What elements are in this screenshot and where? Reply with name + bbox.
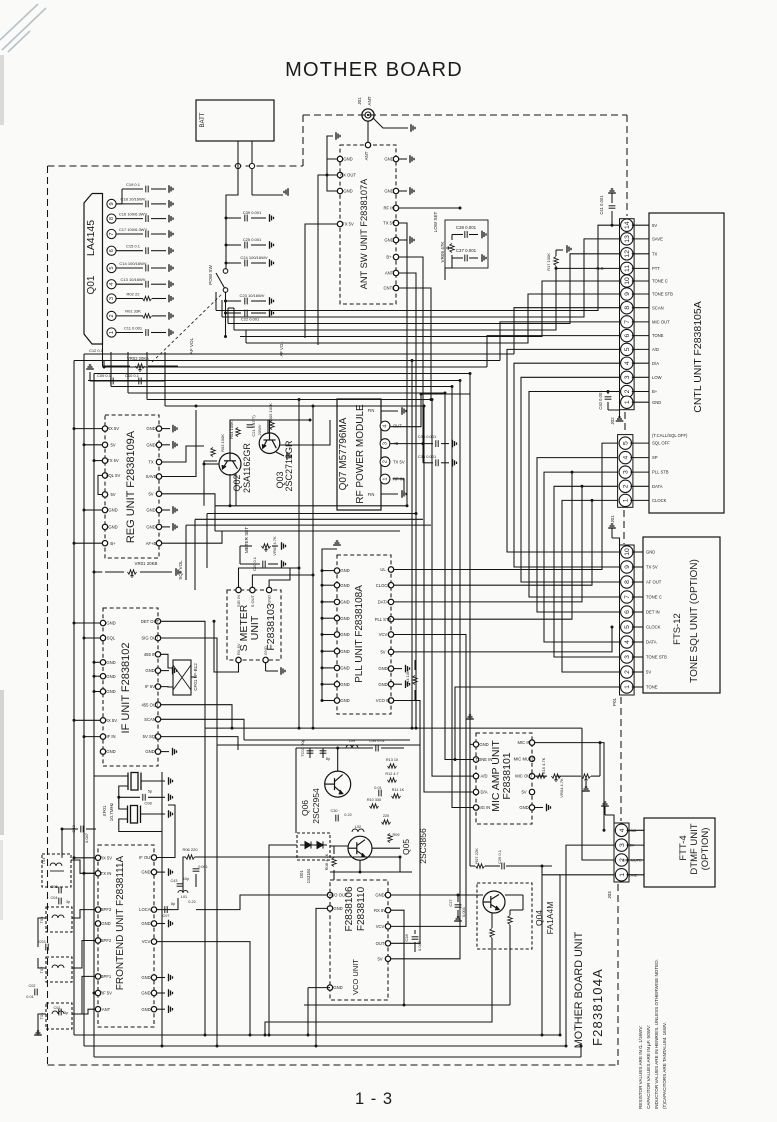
svg-text:GND: GND <box>146 426 155 431</box>
svg-text:C14 100/16WV: C14 100/16WV <box>119 261 146 266</box>
pin GND (PLL left) <box>334 616 339 621</box>
svg-text:VCO OUT: VCO OUT <box>328 893 348 898</box>
svg-text:0.22: 0.22 <box>188 900 195 904</box>
capacitor C16 100/6.3WV <box>116 218 143 220</box>
resistor R07 22K <box>476 864 485 868</box>
svg-text:3: 3 <box>619 843 626 847</box>
pin 3 TONE STB (P01) <box>621 651 633 663</box>
svg-text:7: 7 <box>624 595 631 599</box>
svg-text:VCV: VCV <box>379 632 388 637</box>
svg-text:C11 0.001: C11 0.001 <box>124 325 143 330</box>
wire ANT SW left gnd bus <box>327 159 337 191</box>
svg-text:5V: 5V <box>380 650 385 655</box>
svg-text:C17 100/6.3WV: C17 100/6.3WV <box>119 227 148 232</box>
svg-text:C24 100/16WV: C24 100/16WV <box>240 255 267 260</box>
svg-text:GND: GND <box>106 689 115 694</box>
pin SQL (IF left) <box>100 635 105 640</box>
svg-text:3p: 3p <box>64 1011 68 1015</box>
pin UL (PLL right) <box>388 567 393 572</box>
pin 1 CLOCK (J01) <box>619 494 631 506</box>
pin MIC OUT (MIC AMP right) <box>529 773 534 778</box>
pin 2 B+ (J02) <box>621 385 633 397</box>
pin 4 OUT (RF module) <box>380 421 390 431</box>
mother board unit dashed border right segments <box>626 115 628 216</box>
svg-text:D/A: D/A <box>652 361 659 366</box>
svg-text:2: 2 <box>624 670 631 674</box>
svg-text:INDUCTOR VALUES ARE IN HENRIES: INDUCTOR VALUES ARE IN HENRIES. UNLESS O… <box>654 959 659 1109</box>
resistor R02 22 <box>116 298 143 300</box>
svg-text:5V: 5V <box>148 491 153 496</box>
pin GND (PLL left) <box>334 568 339 573</box>
wire bus line <box>88 380 460 382</box>
pin OUT (VCO right) <box>385 941 390 946</box>
svg-text:IF 5V: IF 5V <box>145 684 155 689</box>
resistor R01 33K <box>116 315 143 317</box>
svg-text:GND: GND <box>141 1007 150 1012</box>
pin GND (PLL left) <box>334 665 339 670</box>
svg-text:4: 4 <box>624 361 631 365</box>
wire bus line <box>147 399 432 401</box>
svg-text:GND: GND <box>343 189 352 194</box>
svg-text:(T)CAPACITORS ARE TANTALUM. 16: (T)CAPACITORS ARE TANTALUM. 16WV. <box>662 1022 667 1109</box>
wire VR05 link <box>445 255 452 280</box>
mother board unit dashed border top segment <box>303 114 627 116</box>
capacitor C09 0.1 C10 0.1 <box>90 380 165 382</box>
pin GND (FRONTEND left) <box>95 921 100 926</box>
svg-text:9: 9 <box>624 292 631 296</box>
pin DATA (PLL right) <box>388 599 393 604</box>
pin TX (REG right) <box>156 459 161 464</box>
wire S meter feeds <box>239 568 300 587</box>
svg-text:C04: C04 <box>51 896 58 900</box>
wire J02 B+ branch <box>529 391 608 393</box>
wire bus upper left risers <box>215 292 217 311</box>
svg-text:GND: GND <box>146 442 155 447</box>
wire J02 pin run <box>246 294 620 343</box>
svg-text:R11 1K: R11 1K <box>392 788 405 792</box>
svg-text:1: 1 <box>383 477 389 480</box>
svg-text:8p: 8p <box>171 902 175 906</box>
svg-text:3: 3 <box>624 655 631 659</box>
pin S OUT (S METER top) <box>250 587 255 592</box>
capacitor C40 0.001 <box>605 397 612 399</box>
svg-text:TX: TX <box>148 460 154 465</box>
trimmer VR04 4.7K <box>552 774 561 778</box>
pin 7 MIC OUT (J02) <box>621 316 633 328</box>
capacitor C15 0.1 <box>116 250 143 252</box>
capacitor C20 0.1 <box>263 561 265 568</box>
svg-text:BPF3: BPF3 <box>101 907 112 912</box>
wire J02 pin run <box>216 225 620 310</box>
pin 6 (Q01) <box>107 246 116 255</box>
svg-text:GND: GND <box>384 189 393 194</box>
svg-text:C25 0.001: C25 0.001 <box>243 237 262 242</box>
trimmer VR03 4.7K <box>262 544 271 548</box>
resistor R06 220 <box>186 855 195 859</box>
mother board unit dashed border top-left segment <box>48 165 304 167</box>
unit IF UNIT F2838102 <box>103 608 158 766</box>
svg-text:C16 100/6.3WV: C16 100/6.3WV <box>119 211 148 216</box>
svg-text:MIC MUTE: MIC MUTE <box>514 756 535 761</box>
svg-text:TONE IN: TONE IN <box>476 757 493 762</box>
wire vertical to VCO 5V <box>391 381 460 959</box>
svg-text:SP: SP <box>652 455 658 460</box>
pin 10 TONE C (J02) <box>621 275 633 287</box>
svg-text:TX 5V: TX 5V <box>393 459 405 464</box>
wire vertical to Q04 <box>469 374 471 867</box>
wire Q06 rail left <box>295 748 297 833</box>
svg-text:VCV: VCV <box>376 924 385 929</box>
svg-text:2: 2 <box>624 389 631 393</box>
svg-text:CLOCK: CLOCK <box>646 625 661 630</box>
svg-text:J01: J01 <box>357 97 362 105</box>
svg-text:DATA: DATA <box>652 484 663 489</box>
svg-text:LOCAL: LOCAL <box>139 907 153 912</box>
pin 4 GND (J03) <box>615 824 627 836</box>
pin 8 (Q01) <box>107 214 116 223</box>
pin SQL 5V (REG left) <box>102 473 107 478</box>
svg-text:GND: GND <box>333 985 342 990</box>
svg-text:GND: GND <box>628 828 637 833</box>
svg-text:LOW: LOW <box>652 375 662 380</box>
wire bus line <box>84 353 514 355</box>
wire vertical x542 tone line <box>541 866 543 1035</box>
svg-text:Q06: Q06 <box>300 800 310 816</box>
pin RX 5V (IF left) <box>100 718 105 723</box>
capacitor C38 0.001 <box>445 220 488 268</box>
pin TX 5V (REG left) <box>102 458 107 463</box>
wire J01 to ANT pin <box>367 121 369 142</box>
svg-text:5V: 5V <box>521 790 526 795</box>
wire frontend IF OUT up <box>157 805 175 858</box>
svg-text:VR04 4.7K: VR04 4.7K <box>559 778 564 798</box>
svg-text:A/D: A/D <box>652 347 659 352</box>
svg-text:C38 0.001: C38 0.001 <box>456 225 477 230</box>
pin SAVE (REG right) <box>156 474 161 479</box>
svg-text:(T.CALL/SQL OFF): (T.CALL/SQL OFF) <box>652 433 688 438</box>
svg-text:0.01: 0.01 <box>374 786 381 790</box>
svg-text:GND: GND <box>378 666 387 671</box>
unit S METER UNIT F2838103 <box>227 590 281 660</box>
svg-text:R13 10: R13 10 <box>386 758 398 762</box>
pin RX 5V (REG left) <box>102 426 107 431</box>
pin A/D (MIC AMP left) <box>473 773 478 778</box>
pin 8 SCAN (J02) <box>621 302 633 314</box>
svg-text:F2838103: F2838103 <box>265 603 277 650</box>
pin TONE IN (MIC AMP left) <box>473 757 478 762</box>
wire ANT SW A-V down <box>399 273 416 728</box>
svg-text:GND: GND <box>106 621 115 626</box>
pin B+ (ANT SW right) <box>393 254 398 259</box>
pin 2 MIC MUTE (J03) <box>615 854 627 866</box>
svg-text:R06 220: R06 220 <box>182 847 198 852</box>
pin GND (PLL right) <box>388 682 393 687</box>
pin 6 TONE (J02) <box>621 329 633 341</box>
pin GND (VCO right) <box>385 892 390 897</box>
wire J02 to P01 <box>529 392 620 598</box>
svg-text:VCO UNIT: VCO UNIT <box>351 959 360 995</box>
svg-text:D01: D01 <box>299 869 304 877</box>
svg-text:LOW SET: LOW SET <box>433 211 438 232</box>
pin GND (PLL left) <box>334 649 339 654</box>
pin D/A (MIC AMP left) <box>473 789 478 794</box>
svg-text:R12 4.7: R12 4.7 <box>385 772 398 776</box>
svg-text:ANT: ANT <box>385 271 394 276</box>
capacitor C29 0.1 <box>502 863 504 870</box>
wire frontend local rail right <box>399 857 401 872</box>
pin 5 (Q01) <box>107 263 116 272</box>
wire BATT right branch to ground <box>252 194 283 196</box>
pin RX 5V (FRONTEND left) <box>95 855 100 860</box>
pin RX 5V (S METER bottom) <box>236 657 241 662</box>
svg-text:VR05 47K: VR05 47K <box>440 241 445 263</box>
svg-text:D/A: D/A <box>481 790 488 795</box>
svg-text:R08 4.7K: R08 4.7K <box>324 853 329 870</box>
svg-text:C19 0.1: C19 0.1 <box>126 182 141 187</box>
capacitor C39 0.001 <box>226 217 241 219</box>
svg-text:GND: GND <box>146 508 155 513</box>
svg-text:C40 0.001: C40 0.001 <box>598 390 603 410</box>
wire BATT feed to POW SW <box>226 141 238 269</box>
svg-text:L01: L01 <box>181 895 187 899</box>
capacitor C36 0.001 <box>390 443 433 445</box>
svg-text:1: 1 <box>624 685 631 689</box>
pin RF 5V (FRONTEND left) <box>95 990 100 995</box>
wire nest line <box>215 530 400 532</box>
mother board unit dashed border left segment <box>47 166 49 1065</box>
resistor R15 4.7K <box>537 774 546 778</box>
wire J01 to ground <box>373 118 408 128</box>
svg-text:POW SW: POW SW <box>208 265 213 285</box>
unit ANT SW UNIT F2838107A <box>340 145 396 304</box>
svg-text:MOTHER BOARD UNIT: MOTHER BOARD UNIT <box>573 931 585 1048</box>
svg-text:C18 10/16WV: C18 10/16WV <box>121 197 146 202</box>
ground J03 top <box>601 802 609 806</box>
svg-text:CNTL UNIT F2838105A: CNTL UNIT F2838105A <box>692 301 704 412</box>
svg-text:B+: B+ <box>110 541 116 546</box>
pin 2 TX 5V (RF module) <box>380 457 390 467</box>
filter CF01 LF-B12 <box>173 660 191 695</box>
mother board unit dashed border jog <box>302 115 304 166</box>
svg-text:20WV: 20WV <box>257 424 262 435</box>
pin GND (VCO left) <box>327 985 332 990</box>
svg-text:RX 5V: RX 5V <box>100 855 112 860</box>
svg-text:FTS-12: FTS-12 <box>672 613 683 645</box>
pin GND (S METER top) <box>266 587 271 592</box>
svg-text:C39 0.001: C39 0.001 <box>243 210 262 215</box>
svg-text:C36 0.001: C36 0.001 <box>418 434 437 439</box>
transistor Q03 2SC2712GR <box>259 433 280 454</box>
svg-text:AF VOL: AF VOL <box>279 341 284 357</box>
capacitor C19 0.1 <box>116 203 122 205</box>
pin 2 DATA (J01) <box>619 480 631 492</box>
svg-text:GND: GND <box>141 991 150 996</box>
svg-text:3: 3 <box>109 297 115 300</box>
svg-text:220: 220 <box>383 814 389 818</box>
wire bus line <box>104 366 487 368</box>
wire left verticals <box>73 361 75 1036</box>
wire J02 pin run <box>240 281 620 337</box>
crystal XF01 10.7MHz <box>131 773 138 791</box>
capacitor C13 10/16WV <box>116 283 143 285</box>
wire PLL VCV to VCO <box>391 635 466 927</box>
svg-text:C23 10/16WV: C23 10/16WV <box>240 293 265 298</box>
svg-text:GND: GND <box>333 906 342 911</box>
svg-text:GND: GND <box>106 749 115 754</box>
svg-text:5V SQL: 5V SQL <box>143 734 158 739</box>
svg-text:C41 0.001: C41 0.001 <box>599 195 604 215</box>
wire bus line <box>94 373 470 375</box>
capacitor C25 0.001 <box>226 244 241 246</box>
pin GND (FRONTEND right) <box>151 1007 156 1012</box>
svg-text:R15 4.7K: R15 4.7K <box>541 757 546 774</box>
pin GND (IF left) <box>100 674 105 679</box>
svg-text:2SA1162GR: 2SA1162GR <box>242 443 252 493</box>
connector J01 body <box>618 435 633 508</box>
svg-text:0.01: 0.01 <box>26 995 33 999</box>
mechanical link dashed VR02 to POW SW <box>152 294 222 362</box>
svg-text:C30: C30 <box>331 809 338 813</box>
svg-text:DATA: DATA <box>378 600 389 605</box>
svg-text:3: 3 <box>624 375 631 379</box>
resistor R03 100K <box>211 448 215 457</box>
svg-text:FTT-4: FTT-4 <box>678 835 689 860</box>
wire left stubs to IF <box>74 622 100 624</box>
svg-text:TX: TX <box>652 251 658 256</box>
unit FTT-4 DTMF UNIT (OPTION) <box>644 818 715 887</box>
pin GND (MIC AMP right) <box>529 805 534 810</box>
svg-text:S OUT: S OUT <box>250 594 255 607</box>
wire Q05 Q06 links <box>330 845 348 847</box>
svg-text:VCO IN: VCO IN <box>376 698 390 703</box>
coil T01 <box>46 1003 72 1029</box>
resistor R11 1K <box>392 794 401 798</box>
svg-text:A/D: A/D <box>481 774 488 779</box>
svg-text:6: 6 <box>109 249 115 252</box>
pin GND (ANT SW right) <box>393 237 398 242</box>
pin GND (PLL left) <box>334 632 339 637</box>
svg-text:R03 100K: R03 100K <box>220 434 225 452</box>
capacitor C07 8p local coupling <box>157 909 172 911</box>
wire crystal 2 right to ground <box>141 813 166 815</box>
svg-text:GND: GND <box>646 550 655 555</box>
svg-text:1 - 3: 1 - 3 <box>355 1090 393 1108</box>
pin 4 (Q01) <box>107 280 116 289</box>
svg-text:FIN: FIN <box>368 492 375 497</box>
pin GND (ANT SW left) <box>337 156 342 161</box>
svg-text:RF POWER MODULE: RF POWER MODULE <box>355 404 366 504</box>
svg-text:14: 14 <box>624 221 631 229</box>
unit FRONTEND UNIT F2838111A <box>98 845 154 1027</box>
svg-text:RESISTOR VALUES ARE IN Ω. 1/16: RESISTOR VALUES ARE IN Ω. 1/16WV: <box>638 1025 643 1109</box>
pin CNTL (ANT SW right) <box>393 285 398 290</box>
wire ANT SW B+ down <box>399 257 423 444</box>
pin RX 5V (VCO right) <box>385 908 390 913</box>
pin 4 SP (J01) <box>619 451 631 463</box>
svg-text:RX OUT: RX OUT <box>340 173 356 178</box>
wire J02 to P01 <box>507 349 620 552</box>
wire bus line <box>111 386 452 388</box>
svg-text:4: 4 <box>383 424 389 427</box>
capacitor C41 0.001 <box>608 189 616 193</box>
pin LOCAL (FRONTEND right) <box>151 907 156 912</box>
svg-text:C35 0.001: C35 0.001 <box>418 454 437 459</box>
svg-text:P01: P01 <box>612 697 617 706</box>
svg-text:455 IN: 455 IN <box>144 652 156 657</box>
pin CLOCK (PLL right) <box>388 583 393 588</box>
unit VCO UNIT F2838106 F2838110 <box>330 880 388 1000</box>
wire bus line <box>74 360 500 362</box>
pin GND (REG left) <box>102 524 107 529</box>
svg-text:TONE: TONE <box>652 333 664 338</box>
svg-text:ANT: ANT <box>364 151 369 160</box>
svg-text:TONE STB: TONE STB <box>646 655 667 660</box>
svg-text:GND: GND <box>106 674 115 679</box>
unit CNTL UNIT F2838105A <box>649 213 724 513</box>
svg-text:SQL OFF: SQL OFF <box>652 441 670 446</box>
wire ANT SW RX OUT down <box>318 175 337 345</box>
svg-text:R10 330: R10 330 <box>367 798 381 802</box>
svg-text:FRONTEND UNIT F2838111A: FRONTEND UNIT F2838111A <box>115 855 126 990</box>
svg-text:TX 5V: TX 5V <box>107 458 119 463</box>
svg-text:0.22: 0.22 <box>344 813 351 817</box>
coil T02 <box>46 957 72 982</box>
svg-text:XF01: XF01 <box>102 805 107 816</box>
pin ANT (FRONTEND left) <box>95 1007 100 1012</box>
svg-text:Q01: Q01 <box>86 275 97 294</box>
pin 3 +B (RF module) <box>380 439 390 449</box>
wire J02 pin run <box>228 254 620 324</box>
svg-text:B+: B+ <box>652 389 658 394</box>
svg-text:VR01 20KB: VR01 20KB <box>135 561 158 566</box>
pin 3 (Q01) <box>107 294 116 303</box>
svg-text:GND: GND <box>384 157 393 162</box>
pin 1 TONE (J03) <box>615 869 627 881</box>
svg-text:GND: GND <box>108 525 117 530</box>
wire nest line <box>215 505 407 507</box>
wire J02 lower pins to bus <box>514 308 620 354</box>
pin GND (PLL left) <box>334 599 339 604</box>
pin VCV (VCO right) <box>385 924 390 929</box>
pin SIG IN (S METER top) <box>236 587 241 592</box>
crystal XF01 second element <box>131 806 138 824</box>
wire REG right fan <box>162 446 204 462</box>
pin GND (ANT SW left) <box>337 188 342 193</box>
svg-text:MIC MUTE: MIC MUTE <box>622 858 642 863</box>
svg-text:GND: GND <box>343 157 352 162</box>
svg-text:11: 11 <box>624 265 631 272</box>
pin ANT top <box>365 142 370 147</box>
svg-text:UNIT: UNIT <box>249 615 261 640</box>
transistor Q05 2SC3856 <box>348 836 372 860</box>
svg-text:10: 10 <box>624 548 631 556</box>
pin GND (FRONTEND right) <box>151 869 156 874</box>
svg-text:SIG OUT: SIG OUT <box>141 636 159 641</box>
pin 4 D/A (J02) <box>621 357 633 369</box>
battery BATT <box>196 100 274 141</box>
svg-text:6: 6 <box>624 333 631 337</box>
pin GND (PLL left) <box>334 682 339 687</box>
svg-text:CAPACITOR VALUES ARE IN µF. 50: CAPACITOR VALUES ARE IN µF. 50WV: <box>646 1025 651 1109</box>
wire J02 to P01 <box>521 377 620 582</box>
svg-text:C43: C43 <box>171 879 178 883</box>
svg-text:2SC2712GR: 2SC2712GR <box>284 440 294 492</box>
diode D01 1S3184 <box>297 833 330 860</box>
svg-text:VCV: VCV <box>142 939 151 944</box>
resistor R13 10 <box>388 764 397 768</box>
capacitor C06 C04 <box>59 887 61 894</box>
svg-text:2: 2 <box>383 460 389 463</box>
